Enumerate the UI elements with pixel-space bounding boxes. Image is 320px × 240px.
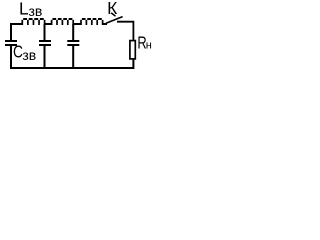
wire: top rail from L3 to switch left contact xyxy=(103,23,107,25)
wire: resistor bottom to bottom rail, bottom rail, up to C1 bottom plate xyxy=(11,45,133,68)
wire: top rail between L2 and L3, node B xyxy=(73,23,81,25)
capacitor C3: wire from node B, plates, wire to bottom rail xyxy=(67,24,79,68)
svg-text:зв: зв xyxy=(29,3,43,19)
svg-text:К: К xyxy=(107,0,118,18)
inductor L3 xyxy=(81,20,103,25)
wire: top rail between L1 and L2, node A xyxy=(45,23,52,25)
capacitor C1 (Cзв) bottom plate xyxy=(5,44,17,46)
switch K blade (open) xyxy=(106,17,123,24)
svg-text:зв: зв xyxy=(22,47,36,63)
svg-text:L: L xyxy=(19,0,29,18)
wire: switch right terminal to resistor Rн (corner) xyxy=(117,22,133,41)
inductor L1 (Lзв) xyxy=(22,20,44,25)
switch K fixed contact jaw xyxy=(111,13,115,16)
resistor Rн body xyxy=(130,41,135,59)
capacitor C1 (Cзв) top plate xyxy=(5,40,17,42)
capacitor C2: wire from node A, plates, wire to bottom rail xyxy=(39,24,51,68)
svg-text:н: н xyxy=(146,40,152,52)
inductor L2 xyxy=(52,20,74,25)
wire: left branch from C1 top plate up to top rail and right to L1 xyxy=(11,24,22,41)
